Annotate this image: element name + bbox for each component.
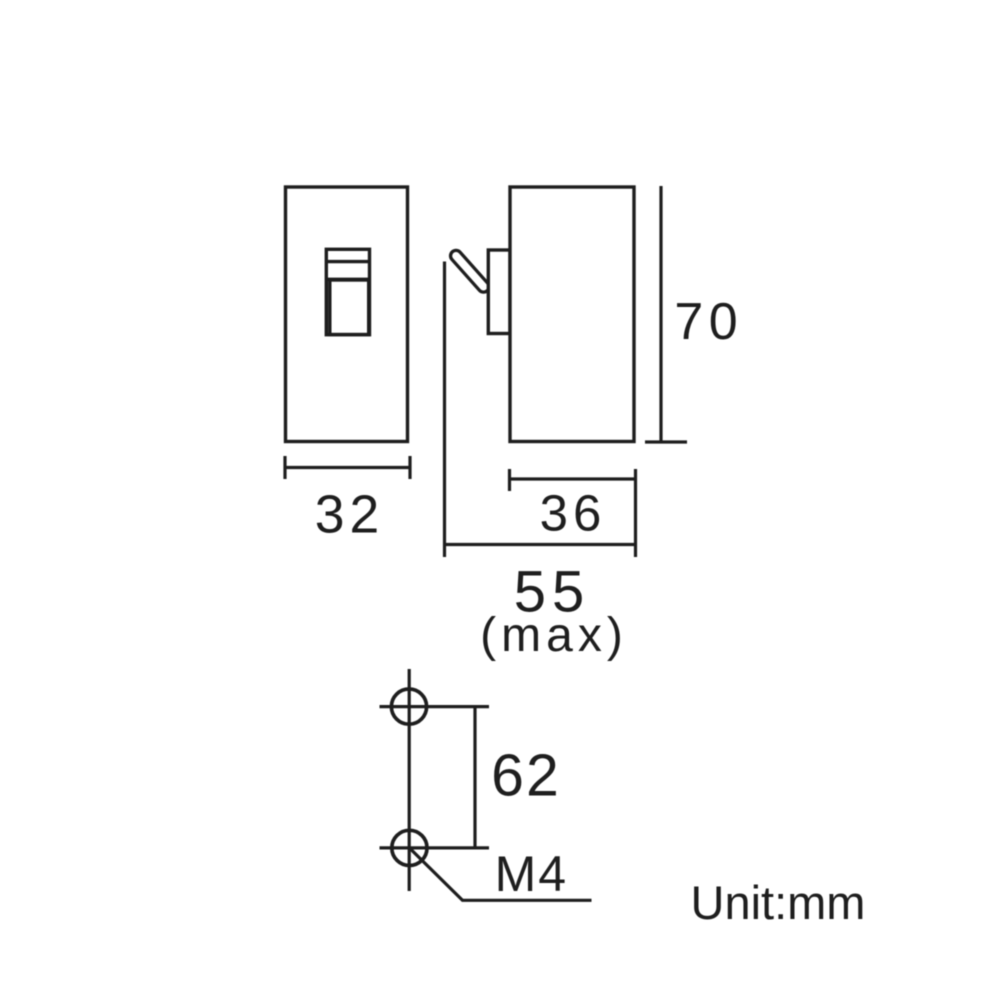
mounting centerline vertical <box>408 669 411 891</box>
mounting boss (side view) <box>488 250 510 334</box>
top hole crosshair horizontal <box>380 705 490 708</box>
dim 32 line <box>285 466 410 469</box>
svg-text:(max): (max) <box>480 609 628 662</box>
bottom hole crosshair horizontal <box>380 846 490 849</box>
toggle bezel line 2 <box>326 278 369 281</box>
M4 leader line <box>410 849 592 901</box>
dim 55 line <box>445 543 635 546</box>
svg-text:70: 70 <box>674 293 743 351</box>
dim 32 extension tick left <box>283 456 286 479</box>
dim 32 extension tick right <box>408 456 411 479</box>
dim 55 extension line from lever <box>443 262 446 558</box>
toggle handle <box>330 280 369 335</box>
svg-text:M4: M4 <box>495 846 568 902</box>
dim 36 left tick <box>508 469 511 491</box>
svg-text:62: 62 <box>491 743 561 809</box>
svg-text:Unit:mm: Unit:mm <box>691 876 866 929</box>
front view body <box>286 187 408 442</box>
top mounting hole <box>391 689 426 724</box>
side view body <box>510 187 634 442</box>
dim 36/55 right extension line <box>634 469 637 557</box>
dim 70 line <box>659 186 662 442</box>
toggle bezel <box>326 249 369 334</box>
bottom mounting hole <box>392 830 427 865</box>
svg-text:32: 32 <box>315 486 385 545</box>
dim 36 line <box>510 477 636 480</box>
svg-text:36: 36 <box>540 485 607 542</box>
dim 62 line <box>473 707 476 848</box>
lever handle (side view) <box>456 256 484 287</box>
toggle bezel line 1 <box>326 260 369 263</box>
dim 70 bottom tick <box>645 440 687 443</box>
